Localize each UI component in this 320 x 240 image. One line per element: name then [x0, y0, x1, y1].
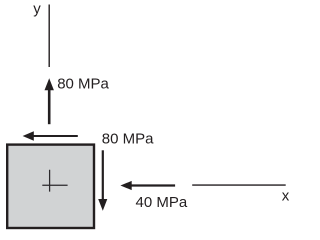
svg-text:40 MPa: 40 MPa [136, 194, 188, 211]
x axis line [192, 184, 286, 186]
svg-text:80 MPa: 80 MPa [102, 130, 154, 147]
svg-text:x: x [282, 187, 290, 204]
svg-text:80 MPa: 80 MPa [57, 76, 109, 93]
shear arrow top face (left) [23, 131, 78, 140]
shear arrow right face (down) [98, 150, 107, 211]
svg-text:y: y [33, 1, 41, 18]
y axis line [48, 5, 50, 68]
sigma-x arrow 40 MPa (left) [120, 181, 175, 190]
center cross [42, 170, 67, 192]
stress element square [7, 145, 94, 228]
sigma-y arrow 80 MPa (up) [45, 78, 54, 124]
